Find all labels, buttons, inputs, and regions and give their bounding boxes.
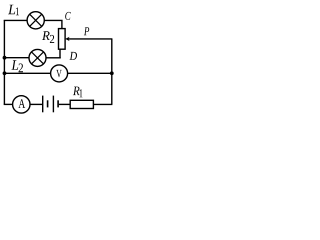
label R1 letter — [73, 87, 80, 96]
ammeter letter A — [18, 99, 25, 108]
label L2 subscript — [19, 64, 23, 73]
resistor R1 — [70, 100, 93, 108]
battery cell 1 long plate — [42, 96, 44, 113]
wire left border vertical — [3, 20, 5, 104]
wire bottom row left segment — [4, 103, 13, 105]
battery cell 2 short plate — [57, 100, 59, 107]
battery cell 2 long plate — [52, 96, 54, 113]
label L1 subscript — [16, 8, 19, 16]
wire row2 right segment — [46, 57, 61, 59]
wire ammeter to battery — [30, 103, 43, 105]
battery cell 1 short plate — [47, 100, 49, 107]
label R2 subscript — [50, 35, 54, 43]
junction dot row3 right — [110, 71, 114, 75]
label R1 subscript — [80, 89, 83, 97]
lamp L1 — [27, 12, 44, 29]
wire R1 to right border — [93, 103, 112, 105]
wire row2 left segment — [4, 57, 30, 59]
junction dot row2 left — [3, 56, 7, 60]
wire battery to R1 — [59, 103, 70, 105]
wire R2 bottom stub to row2 — [59, 49, 61, 58]
wiper arrow P of R2 — [65, 37, 112, 41]
lamp L2 — [29, 49, 46, 66]
ammeter A circle — [13, 96, 30, 113]
label R2 letter — [42, 31, 50, 40]
node C label — [65, 12, 71, 20]
wire right border vertical — [111, 39, 113, 105]
voltmeter V circle — [51, 65, 68, 82]
wire row3 left segment — [4, 72, 51, 74]
voltmeter letter V — [56, 70, 61, 77]
wire top row right segment with corner down to node C — [44, 20, 62, 29]
wire top row left segment — [4, 19, 28, 21]
label L2 letter — [11, 60, 18, 70]
label P — [84, 27, 89, 35]
node D label — [70, 52, 78, 60]
resistor R2 — [59, 29, 66, 50]
junction dot row3 left — [3, 71, 7, 75]
wire row3 right segment — [68, 72, 113, 74]
label L1 letter — [8, 5, 15, 15]
